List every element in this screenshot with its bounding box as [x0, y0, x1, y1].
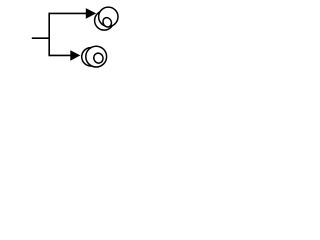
wire left stub [32, 37, 49, 39]
connector J2 hole [92, 52, 104, 65]
wire bottom branch [49, 54, 71, 56]
wire vertical bus [48, 13, 50, 57]
connector J2 front face [86, 46, 107, 67]
arrowhead top [86, 8, 96, 19]
connector J1 front face [99, 7, 118, 26]
connector J1 hole [101, 16, 112, 28]
connector J2 back rim [82, 48, 100, 66]
wire top branch [49, 12, 86, 14]
connector J1 back rim [95, 11, 114, 30]
arrowhead bottom [70, 50, 80, 61]
